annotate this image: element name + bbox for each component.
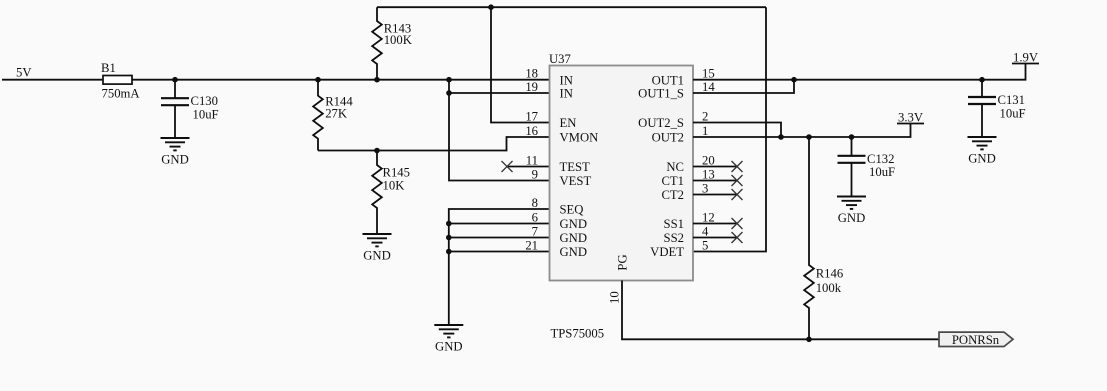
node (172, 77, 178, 83)
svg-text:12: 12 (702, 210, 715, 224)
wire (851, 163, 853, 197)
wire (2, 79, 103, 81)
svg-text:SEQ: SEQ (560, 203, 584, 217)
resistor R143 (372, 7, 413, 80)
wire (132, 79, 550, 81)
no-connect X (CT2) (732, 189, 743, 200)
svg-text:19: 19 (525, 80, 538, 94)
ground (837, 197, 866, 226)
svg-text:1: 1 (702, 124, 708, 138)
svg-text:27K: 27K (325, 107, 348, 121)
wire (318, 137, 550, 151)
wire (449, 92, 550, 94)
svg-text:11: 11 (526, 153, 538, 167)
svg-text:GND: GND (435, 340, 463, 354)
node (446, 221, 452, 227)
svg-text:R145: R145 (383, 165, 411, 179)
svg-text:10uF: 10uF (193, 108, 219, 122)
svg-text:7: 7 (532, 224, 538, 238)
svg-text:IN: IN (560, 87, 573, 101)
svg-text:6: 6 (532, 210, 538, 224)
svg-text:10uF: 10uF (1000, 106, 1026, 120)
capacitor C130 (161, 94, 219, 121)
svg-text:16: 16 (525, 124, 538, 138)
svg-text:15: 15 (702, 67, 715, 81)
svg-text:OUT2_S: OUT2_S (638, 116, 684, 130)
svg-text:17: 17 (525, 109, 538, 123)
svg-text:IN: IN (560, 73, 573, 87)
svg-text:R146: R146 (816, 267, 844, 281)
svg-text:PONRSn: PONRSn (952, 333, 1000, 347)
svg-text:5: 5 (702, 238, 708, 252)
net label 5V (16, 66, 32, 80)
node (791, 77, 797, 83)
svg-text:VMON: VMON (560, 131, 599, 145)
wire (851, 137, 853, 156)
wire (174, 80, 176, 99)
svg-text:13: 13 (702, 167, 715, 181)
svg-text:C132: C132 (867, 152, 895, 166)
node (374, 148, 380, 154)
pin numbers U37 left (525, 67, 538, 253)
svg-text:1.9V: 1.9V (1013, 51, 1039, 65)
node (446, 90, 452, 96)
node (446, 235, 452, 241)
svg-text:NC: NC (666, 160, 684, 174)
wire (449, 209, 550, 325)
svg-text:CT1: CT1 (661, 174, 684, 188)
node (446, 249, 452, 255)
svg-text:3: 3 (702, 181, 708, 195)
svg-text:GND: GND (560, 245, 588, 259)
svg-text:C131: C131 (998, 93, 1026, 107)
capacitor C132 (838, 152, 896, 179)
node (778, 134, 784, 140)
wire (507, 166, 550, 168)
wire pin 4 (693, 237, 737, 239)
wire (449, 223, 550, 225)
net label 1.9V (1012, 51, 1039, 65)
op-amp U37 body (549, 52, 693, 340)
svg-text:OUT1: OUT1 (652, 73, 684, 87)
net label 3.3V (897, 111, 924, 125)
wire (449, 237, 550, 239)
node (488, 4, 494, 10)
ground (363, 234, 392, 263)
port PONRSn (939, 332, 1013, 347)
pin numbers U37 right (702, 67, 715, 253)
capacitor C131 (968, 93, 1026, 120)
wire (981, 104, 983, 137)
svg-text:2: 2 (702, 109, 708, 123)
ground (434, 325, 463, 354)
pin names U37 right (638, 73, 684, 259)
wire pin 3 (693, 194, 737, 196)
no-connect X (TEST) (502, 161, 513, 172)
resistor R144 (313, 80, 353, 151)
ground (968, 137, 997, 166)
wire (693, 123, 781, 138)
node (374, 77, 380, 83)
svg-text:GND: GND (838, 211, 866, 225)
wire pin 12 (693, 223, 737, 225)
svg-text:CT2: CT2 (661, 188, 684, 202)
svg-text:14: 14 (702, 80, 715, 94)
svg-text:GND: GND (363, 249, 391, 263)
svg-text:4: 4 (702, 224, 709, 238)
svg-text:9: 9 (532, 167, 538, 181)
wire (449, 251, 550, 253)
wire (449, 80, 550, 181)
wire (693, 80, 794, 93)
node (315, 77, 321, 83)
no-connect X (SS2) (732, 232, 743, 243)
node (806, 134, 812, 140)
svg-text:EN: EN (560, 116, 577, 130)
pin name PG (616, 254, 630, 270)
svg-text:21: 21 (525, 238, 538, 252)
svg-text:5V: 5V (16, 66, 32, 80)
svg-text:10uF: 10uF (869, 165, 895, 179)
svg-text:VEST: VEST (560, 174, 592, 188)
wire (174, 105, 176, 138)
svg-text:750mA: 750mA (102, 86, 141, 100)
ground (161, 138, 190, 167)
fuse B1 (101, 61, 140, 101)
wire (981, 80, 983, 97)
svg-text:C130: C130 (191, 94, 219, 108)
wire (491, 7, 550, 122)
svg-text:20: 20 (702, 153, 715, 167)
wire (693, 124, 911, 138)
wire pin 20 (693, 166, 737, 168)
resistor R146 (804, 137, 843, 339)
svg-text:100K: 100K (384, 33, 413, 47)
svg-text:OUT1_S: OUT1_S (638, 87, 684, 101)
pin number 10 (607, 291, 621, 304)
no-connect X (SS1) (732, 218, 743, 229)
svg-text:18: 18 (525, 67, 538, 81)
svg-text:TEST: TEST (560, 160, 591, 174)
svg-text:GND: GND (560, 231, 588, 245)
node (849, 134, 855, 140)
wire (693, 64, 1026, 80)
wire pin 13 (693, 180, 737, 182)
no-connect X (CT1) (732, 175, 743, 186)
svg-text:VDET: VDET (650, 245, 684, 259)
svg-text:SS1: SS1 (664, 217, 684, 231)
no-connect X (NC) (732, 161, 743, 172)
svg-text:GND: GND (968, 152, 996, 166)
svg-text:8: 8 (532, 196, 538, 210)
svg-text:B1: B1 (101, 61, 116, 75)
svg-text:PG: PG (616, 254, 630, 270)
pin names U37 left (560, 73, 599, 259)
svg-text:TPS75005: TPS75005 (551, 327, 605, 341)
svg-text:U37: U37 (549, 52, 571, 66)
node (446, 77, 452, 83)
node (979, 77, 985, 83)
wire (622, 281, 939, 340)
node (806, 337, 812, 343)
wire (693, 7, 766, 251)
svg-text:SS2: SS2 (664, 231, 684, 245)
svg-text:GND: GND (560, 217, 588, 231)
wire (377, 6, 766, 8)
svg-text:10: 10 (607, 291, 621, 304)
resistor R145 (372, 151, 410, 235)
svg-text:100k: 100k (816, 281, 842, 295)
svg-text:10K: 10K (383, 178, 406, 192)
svg-text:3.3V: 3.3V (898, 111, 924, 125)
svg-text:OUT2: OUT2 (652, 131, 684, 145)
svg-text:GND: GND (161, 153, 189, 167)
